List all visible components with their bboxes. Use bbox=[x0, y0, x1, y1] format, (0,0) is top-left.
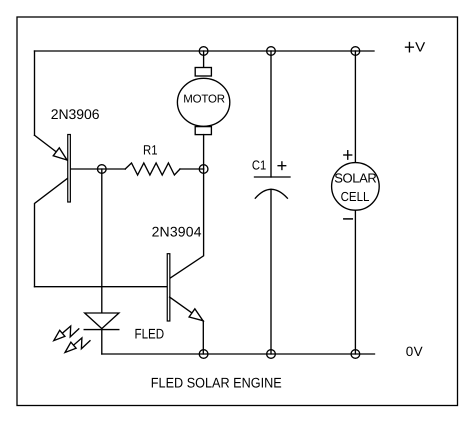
node motor top bbox=[199, 47, 208, 56]
svg-text:2N3906: 2N3906 bbox=[51, 106, 100, 122]
transistor Q2 2N3904 emitter wire bbox=[170, 297, 204, 321]
transistor Q1 2N3906 base bar bbox=[68, 135, 71, 203]
motor bottom terminal bbox=[195, 127, 211, 135]
wire Q1 collector to Q2 base bbox=[35, 286, 167, 288]
wire FLED cathode to 0V rail bbox=[101, 329, 103, 354]
solar cell body bbox=[332, 163, 380, 211]
node solar bottom bbox=[351, 350, 360, 359]
node B (R1 / motor / Q2 collector) bbox=[199, 165, 208, 174]
label solar plus bbox=[344, 154, 352, 156]
node solar top bbox=[351, 47, 360, 56]
label C1 plus bbox=[278, 165, 286, 167]
transistor Q1 2N3906 emitter arrowhead bbox=[53, 148, 67, 160]
wire node A down to FLED anode bbox=[101, 169, 103, 313]
resistor R1 bbox=[125, 163, 180, 175]
transistor Q1 2N3906 emitter wire bbox=[35, 135, 68, 160]
node Q2 emitter 0V bbox=[199, 350, 208, 359]
label solar minus bbox=[344, 218, 353, 220]
svg-text:MOTOR: MOTOR bbox=[183, 94, 225, 106]
transistor Q2 2N3904 base bar bbox=[167, 254, 170, 321]
capacitor C1 top plate bbox=[255, 176, 291, 178]
diode FLED triangle bbox=[85, 313, 119, 329]
svg-text:CELL: CELL bbox=[341, 189, 370, 204]
label +V bbox=[406, 46, 414, 48]
capacitor C1 bottom plate (curved) bbox=[255, 189, 287, 198]
svg-text:2N3904: 2N3904 bbox=[152, 224, 202, 240]
svg-text:0V: 0V bbox=[406, 344, 423, 359]
wire solar cell bottom bbox=[354, 210, 356, 354]
FLED light flash arrow 1 bbox=[62, 326, 79, 337]
svg-text:SOLAR: SOLAR bbox=[334, 171, 377, 186]
wire motor top bbox=[203, 51, 205, 68]
FLED light flash arrow 2 bbox=[74, 338, 91, 349]
motor M1 body bbox=[177, 78, 229, 126]
wire 0V bottom rail bbox=[102, 353, 375, 355]
wire motor bottom bbox=[203, 135, 205, 169]
node A (Q1 base / FLED) bbox=[97, 165, 106, 174]
transistor Q1 2N3906 collector wire bbox=[35, 179, 68, 287]
wire left vertical from +V rail bbox=[34, 51, 36, 135]
svg-text:V: V bbox=[415, 39, 425, 54]
transistor Q2 2N3904 emitter arrowhead bbox=[189, 309, 203, 321]
motor top terminal bbox=[195, 68, 211, 77]
wire +V top rail bbox=[35, 50, 375, 52]
svg-text:C1: C1 bbox=[252, 158, 266, 173]
wire C1 top bbox=[270, 51, 272, 177]
svg-text:FLED: FLED bbox=[135, 325, 165, 341]
diode FLED cathode bar bbox=[84, 329, 119, 331]
wire C1 bottom bbox=[270, 189, 272, 354]
svg-text:R1: R1 bbox=[143, 143, 158, 158]
transistor Q2 2N3904 collector wire bbox=[170, 169, 204, 278]
wire solar cell top bbox=[354, 51, 356, 163]
wire R1 to node B bbox=[180, 168, 204, 170]
node C1 top bbox=[267, 47, 276, 56]
wire Q1 base to node A bbox=[71, 168, 125, 170]
node C1 bottom bbox=[267, 350, 276, 359]
wire Q2 emitter to 0V rail bbox=[202, 321, 204, 354]
svg-text:FLED SOLAR ENGINE: FLED SOLAR ENGINE bbox=[151, 375, 282, 391]
